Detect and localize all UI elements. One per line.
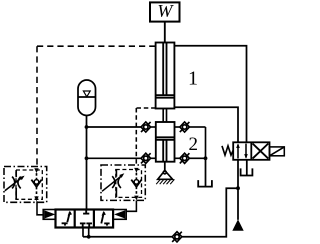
coupling right-top	[180, 122, 190, 132]
node junction pressure line	[236, 186, 240, 190]
wire to cylinder2 left top port	[87, 126, 156, 128]
wire rod from W to cylinder 1	[164, 22, 166, 43]
valve 4 left square arrow	[62, 211, 72, 226]
throttle B adjust arrow	[102, 173, 124, 191]
valve 4 right square arrow	[101, 211, 109, 226]
wire flow control A to left pilot	[37, 201, 43, 215]
wire elbow from pressure node to bottom rail	[83, 188, 238, 237]
wire pipe into tank T1	[205, 158, 207, 186]
valve 4 centre square blocked ports	[80, 210, 92, 228]
load W box	[150, 1, 180, 22]
check valve B	[131, 168, 141, 201]
wire cylinder2 right bottom port to tank line	[175, 157, 206, 159]
coupling on bottom rail	[172, 232, 182, 242]
coupling left-bottom	[141, 153, 151, 163]
tank T2 under valve 3	[241, 168, 253, 175]
tank T1 under cylinder 2	[198, 180, 212, 187]
throttle A adjust arrow	[5, 176, 25, 191]
wire accumulator line to valve P	[86, 115, 88, 210]
wire cylinder2 right top port to tank line	[175, 127, 206, 158]
rod between cylinder 1 and cylinder 2	[163, 109, 166, 123]
pressure source (filled triangle)	[232, 219, 243, 230]
rod of cylinder 2 to support	[164, 162, 166, 171]
valve 3 spring	[222, 146, 233, 155]
valve 3 closed position X	[253, 144, 269, 159]
flow control valve A outer enclosure	[4, 167, 47, 203]
wire valve 3 tank stub	[246, 160, 248, 175]
directional valve 4 body	[56, 210, 114, 228]
wire dashed pilot line top-left	[37, 46, 156, 166]
flow control valve A inner enclosure	[16, 170, 42, 199]
node junction tank drop	[204, 156, 208, 160]
wire flow control B to right pilot	[126, 200, 136, 211]
valve 3 solenoid	[270, 147, 285, 156]
wire cylinder1 top port to valve 3	[174, 46, 246, 143]
wire to cylinder2 left bottom port	[87, 157, 156, 159]
valve 4 right pilot box	[113, 210, 126, 220]
node junction on accumulator line (upper)	[85, 125, 89, 129]
ground support (triangle, pivot, hatching)	[156, 171, 174, 185]
node junction at valve 4 drain	[87, 235, 91, 239]
wire valve 4 bottom stubs	[83, 228, 89, 237]
throttle A	[12, 170, 21, 199]
valve 4 left pilot box	[43, 210, 55, 220]
throttle B	[112, 170, 121, 198]
wire pump pressure line up to valve 3	[237, 160, 239, 220]
node junction on accumulator line (lower)	[85, 156, 89, 160]
check valve A	[31, 168, 41, 201]
flow control valve B outer enclosure	[101, 165, 145, 200]
cylinder 2	[156, 122, 175, 162]
coupling left-top	[141, 122, 151, 132]
flow control valve B inner enclosure	[116, 170, 142, 198]
wire cylinder1 bottom port to valve 3	[174, 107, 238, 142]
valve 3 (2-position bypass valve) body	[233, 142, 269, 160]
coupling right-bottom	[180, 153, 190, 163]
accumulator	[78, 80, 96, 115]
valve 3 flow arrows	[236, 143, 248, 158]
cylinder 1	[156, 43, 175, 109]
svg-text:W: W	[157, 1, 174, 21]
wire dashed pilot line from cylinder1 bottom	[136, 108, 155, 165]
svg-text:1: 1	[188, 68, 198, 90]
svg-text:2: 2	[188, 134, 198, 155]
